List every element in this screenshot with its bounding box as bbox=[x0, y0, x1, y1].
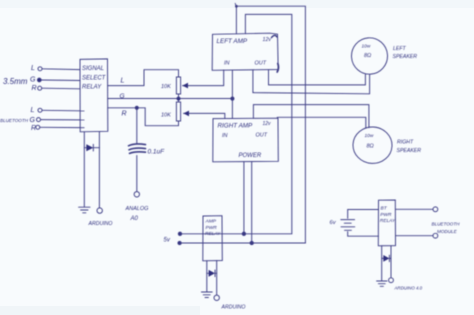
potentiometer R2 10K bbox=[161, 102, 181, 121]
label bluetooth input group bbox=[0, 118, 29, 123]
wire left amp gnd down to right amp bbox=[231, 70, 233, 118]
svg-text:PWR: PWR bbox=[206, 225, 218, 231]
wire G input bbox=[41, 79, 80, 82]
wire R bt bbox=[40, 126, 80, 128]
node L bluetooth bbox=[31, 107, 43, 114]
svg-text:LEFT: LEFT bbox=[393, 46, 407, 52]
diode D2 bbox=[207, 270, 217, 277]
svg-text:BT: BT bbox=[381, 206, 388, 212]
svg-text:10w: 10w bbox=[362, 44, 371, 50]
wire right amp power pin2 bbox=[251, 162, 253, 243]
svg-text:SELECT: SELECT bbox=[82, 75, 107, 81]
wire G bus bbox=[108, 98, 233, 100]
node junction pots-G bbox=[177, 97, 180, 100]
svg-text:SPEAKER: SPEAKER bbox=[397, 148, 422, 154]
svg-text:ANALOG: ANALOG bbox=[125, 206, 150, 212]
wire G bt bbox=[41, 119, 81, 121]
wire 5v line2 bbox=[180, 242, 306, 244]
svg-text:POWER: POWER bbox=[239, 153, 262, 159]
wire right amp power pin1 bbox=[243, 162, 245, 234]
node junction pwr1 bbox=[242, 232, 245, 235]
svg-text:RIGHT AMP: RIGHT AMP bbox=[218, 123, 254, 130]
svg-text:RIGHT: RIGHT bbox=[397, 140, 414, 146]
svg-text:A0: A0 bbox=[130, 216, 139, 222]
svg-text:L: L bbox=[31, 65, 35, 72]
wire relay1 coil right leg bbox=[98, 132, 100, 208]
node L 3.5mm bbox=[31, 65, 42, 72]
node G 3.5mm bbox=[30, 77, 41, 84]
diode D1 bbox=[84, 144, 99, 151]
svg-text:L: L bbox=[121, 78, 125, 85]
node R bluetooth bbox=[31, 125, 40, 132]
node junction R cap bbox=[135, 106, 138, 109]
svg-text:ARDUINO: ARDUINO bbox=[88, 221, 113, 227]
svg-text:SIGNAL: SIGNAL bbox=[82, 66, 104, 72]
svg-text:ARDUINO: ARDUINO bbox=[221, 305, 246, 311]
node G bluetooth bbox=[30, 117, 41, 124]
svg-text:IN: IN bbox=[224, 60, 230, 66]
op-amp U2 left amp box bbox=[212, 33, 278, 72]
wire relay2 coil left leg bbox=[206, 261, 208, 292]
node analog A0 terminal bbox=[134, 192, 139, 197]
svg-text:IN: IN bbox=[222, 133, 228, 139]
svg-text:OUT: OUT bbox=[256, 133, 268, 139]
speaker LS2 right bbox=[352, 126, 393, 164]
wire relay3 out bottom bbox=[396, 235, 434, 237]
svg-text:SPEAKER: SPEAKER bbox=[393, 54, 418, 60]
node G out label bbox=[120, 93, 125, 100]
capacitor C1 0.1uF bbox=[129, 144, 166, 156]
node R out label bbox=[122, 111, 127, 118]
svg-text:L: L bbox=[31, 107, 35, 114]
svg-text:G: G bbox=[30, 117, 36, 124]
node arduino pin relay1 bbox=[97, 208, 102, 213]
svg-text:OUT: OUT bbox=[255, 60, 267, 66]
svg-text:BLUETOOTH: BLUETOOTH bbox=[0, 118, 29, 123]
svg-text:8Ω: 8Ω bbox=[367, 143, 374, 149]
potentiometer R1 10K bbox=[161, 77, 181, 94]
svg-text:12v: 12v bbox=[263, 121, 272, 127]
wire cap to A0 bbox=[136, 156, 138, 192]
svg-text:RELAY: RELAY bbox=[205, 231, 221, 237]
svg-text:MODULE: MODULE bbox=[437, 229, 458, 234]
wire R1 bottom to G bus bbox=[178, 94, 180, 99]
wire right amp OUT+ to right speaker bbox=[253, 105, 369, 128]
wire battery bottom to relay3 bbox=[348, 232, 379, 237]
svg-text:G: G bbox=[30, 77, 36, 84]
svg-text:PWR: PWR bbox=[380, 212, 392, 218]
wire relay3 coil right leg bbox=[390, 246, 392, 278]
wire R input bbox=[42, 87, 80, 90]
wire relay1 coil left leg bbox=[83, 132, 85, 207]
wire L bt bbox=[42, 109, 80, 112]
wire relay3 out top bbox=[395, 208, 433, 210]
svg-text:8Ω: 8Ω bbox=[364, 53, 371, 59]
svg-text:LEFT AMP: LEFT AMP bbox=[217, 38, 248, 45]
svg-text:10K: 10K bbox=[161, 113, 171, 119]
svg-text:RELAY: RELAY bbox=[82, 85, 102, 91]
svg-text:0.1uF: 0.1uF bbox=[148, 149, 166, 156]
wire L out to pot R1 top bbox=[108, 70, 179, 86]
wire right amp IN to R2 wiper (arrow) bbox=[184, 113, 225, 118]
svg-text:AMP: AMP bbox=[205, 219, 217, 225]
node L out label bbox=[121, 78, 125, 85]
node junction G left-amp bbox=[231, 97, 234, 100]
node 5v supply bbox=[164, 238, 171, 244]
wire relay3 coil left leg bbox=[381, 246, 383, 281]
wire left amp OUT- to left speaker bbox=[253, 70, 370, 94]
svg-text:10K: 10K bbox=[161, 84, 171, 90]
speaker LS1 left bbox=[350, 37, 388, 76]
ground relay1 bbox=[79, 207, 90, 213]
wire left amp OUT+ to left speaker bbox=[269, 70, 366, 85]
svg-text:RELAY: RELAY bbox=[380, 218, 396, 224]
node arduino pin relay3 bbox=[389, 278, 394, 283]
relay U4 amp pwr relay box bbox=[203, 216, 223, 261]
label 3.5mm input group bbox=[3, 77, 28, 86]
svg-text:5v: 5v bbox=[164, 238, 171, 244]
svg-text:R: R bbox=[31, 125, 36, 132]
node arduino pin relay2 bbox=[214, 295, 219, 300]
node R 3.5mm bbox=[32, 85, 42, 92]
wire left amp power A (outer loop to amp pwr relay) bbox=[236, 6, 305, 243]
relay U1 signal select relay box bbox=[80, 59, 108, 132]
relay U5 bt pwr relay box bbox=[378, 200, 396, 246]
battery BT1 6v bbox=[330, 220, 355, 231]
node bt module pin2 bbox=[433, 233, 438, 238]
svg-text:3.5mm: 3.5mm bbox=[3, 77, 28, 86]
wire L input bbox=[42, 68, 80, 71]
node blob at top corner bbox=[235, 5, 238, 8]
wire left amp power B (inner loop to amp pwr relay) bbox=[245, 14, 291, 233]
node bt module pin1 bbox=[433, 207, 438, 212]
svg-text:BLUETOOTH: BLUETOOTH bbox=[432, 222, 461, 227]
ground relay3 bbox=[377, 281, 387, 286]
wire 5v line1 bbox=[180, 233, 292, 235]
node junction pwr2 bbox=[250, 241, 253, 244]
svg-text:R: R bbox=[122, 111, 127, 118]
ground relay2 bbox=[201, 292, 212, 298]
wire cap branch bbox=[136, 108, 138, 144]
svg-text:10w: 10w bbox=[365, 133, 374, 139]
wire left amp IN to R1 wiper (arrow) bbox=[183, 70, 224, 86]
svg-text:ARDUINO 4.0: ARDUINO 4.0 bbox=[394, 286, 423, 291]
wire relay2 coil right leg bbox=[216, 261, 218, 295]
op-amp U3 right amp box bbox=[213, 118, 278, 162]
wire R2 top to G bus bbox=[178, 99, 180, 103]
diode D3 bbox=[382, 255, 391, 262]
wire right amp OUT- to right speaker bbox=[277, 117, 366, 128]
wire battery top to relay3 bbox=[348, 210, 379, 219]
wire R out to pot R2 bottom bbox=[108, 108, 179, 126]
svg-text:R: R bbox=[32, 85, 37, 92]
svg-text:12v: 12v bbox=[263, 37, 272, 43]
